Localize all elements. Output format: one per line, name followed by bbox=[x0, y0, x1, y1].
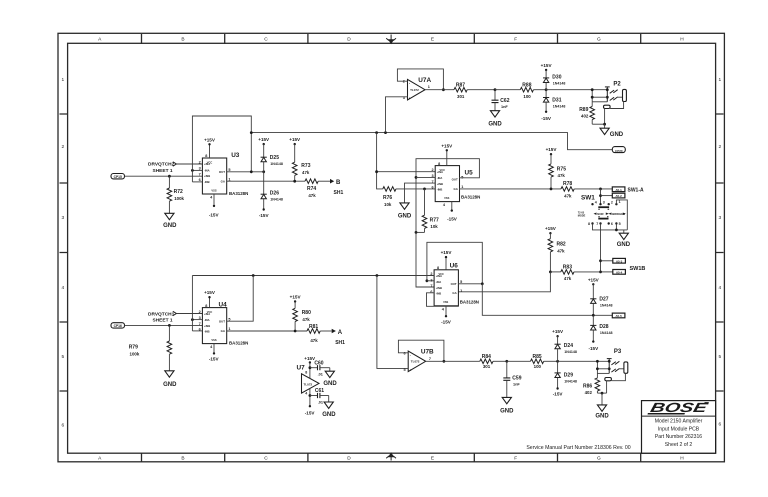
svg-text:-: - bbox=[409, 82, 410, 86]
junction R75 GA bbox=[550, 188, 553, 191]
SW1 wiper bar top bbox=[598, 206, 609, 208]
SW1 pin 8 bbox=[591, 222, 593, 224]
svg-text:4: 4 bbox=[595, 201, 597, 205]
wire U7B feedback bbox=[398, 340, 444, 361]
wire chevron to tip bbox=[619, 368, 624, 370]
resistor R76 10k bbox=[383, 187, 435, 207]
svg-text:+15V: +15V bbox=[588, 277, 600, 282]
svg-text:-15V: -15V bbox=[447, 216, 458, 221]
resistor R83 47k bbox=[550, 265, 600, 282]
svg-text:10k: 10k bbox=[430, 224, 438, 229]
svg-text:CP16: CP16 bbox=[114, 324, 122, 328]
junction R79 tap bbox=[168, 324, 171, 327]
junction U7B feedback output bbox=[443, 360, 446, 363]
junction R83 node bbox=[599, 271, 602, 274]
svg-text:+15V: +15V bbox=[441, 250, 453, 255]
svg-text:D: D bbox=[347, 36, 351, 42]
junction R82 R83 bbox=[549, 271, 552, 274]
svg-text:GND: GND bbox=[617, 242, 631, 248]
svg-text:BOSE: BOSE bbox=[649, 400, 710, 415]
svg-text:Model 2150 Amplifier: Model 2150 Amplifier bbox=[655, 419, 703, 425]
svg-text:2: 2 bbox=[718, 144, 721, 150]
wire to P2 bbox=[546, 89, 607, 91]
connector tag input B bbox=[111, 174, 125, 179]
svg-text:1: 1 bbox=[619, 200, 621, 204]
svg-text:6: 6 bbox=[718, 422, 721, 428]
junction tag2 bbox=[599, 194, 602, 197]
wire R82 node to U6 GA bbox=[458, 272, 550, 292]
wire chevron to tip bbox=[618, 96, 623, 98]
svg-text:CP20: CP20 bbox=[615, 149, 623, 153]
junction P3 ground bbox=[601, 392, 604, 395]
svg-text:8: 8 bbox=[588, 222, 590, 226]
svg-text:5: 5 bbox=[61, 354, 64, 360]
junction R73 GA bbox=[293, 180, 296, 183]
svg-text:10k: 10k bbox=[384, 202, 392, 207]
svg-text:+15V: +15V bbox=[290, 295, 302, 300]
svg-text:U5: U5 bbox=[465, 169, 474, 176]
column labels top bbox=[98, 36, 684, 42]
diode D28 1N4148 bbox=[588, 315, 612, 351]
svg-text:F: F bbox=[514, 36, 517, 42]
svg-text:C60: C60 bbox=[314, 361, 323, 367]
junction U3 pin3 feedback bbox=[191, 169, 194, 172]
svg-text:47k: 47k bbox=[302, 170, 310, 175]
wire SW1 pin8 to rail bbox=[593, 224, 628, 230]
svg-text:R83: R83 bbox=[563, 265, 572, 271]
svg-text:U4: U4 bbox=[219, 302, 228, 309]
svg-text:SW1: SW1 bbox=[581, 194, 595, 201]
svg-text:U7: U7 bbox=[297, 365, 306, 372]
svg-text:1N4148: 1N4148 bbox=[600, 304, 613, 308]
svg-text:1nF: 1nF bbox=[501, 105, 508, 109]
wire U3 feedback loop bbox=[192, 116, 251, 182]
-15V supply U6 pin4 bbox=[441, 306, 452, 325]
-15V supply U5 pin4 bbox=[447, 202, 458, 222]
wire U3 pin3 stub bbox=[192, 169, 202, 171]
net label DRVQTCH1 SHEET 1 bbox=[148, 311, 176, 323]
capacitor C61 .01 bbox=[310, 388, 329, 404]
svg-text:100: 100 bbox=[523, 94, 531, 99]
wire DRVQTCH2 to U3 pin2 bbox=[176, 163, 202, 165]
wire U4 GA line bbox=[227, 330, 307, 332]
svg-text:GND: GND bbox=[322, 412, 336, 418]
switch SW1 bbox=[578, 194, 626, 226]
jack sleeve contact bbox=[605, 378, 612, 381]
junction D30 clamp bbox=[545, 88, 548, 91]
-15V supply U7 pin4 bbox=[305, 389, 316, 416]
diode D24 1N4148 bbox=[552, 329, 577, 361]
svg-text:1: 1 bbox=[718, 77, 721, 83]
wire U5 pin2 bbox=[377, 171, 436, 173]
svg-text:R76: R76 bbox=[383, 195, 392, 201]
connector tag input A bbox=[111, 323, 125, 328]
wire tag2 branch bbox=[600, 189, 602, 204]
center marker top bbox=[386, 35, 396, 44]
svg-text:U7B: U7B bbox=[421, 348, 434, 355]
svg-text:C: C bbox=[264, 456, 268, 462]
svg-text:C61: C61 bbox=[315, 388, 324, 394]
-15V supply U3 pin4 bbox=[209, 194, 220, 217]
svg-text:-15V: -15V bbox=[259, 213, 270, 218]
wire sleeve to tip bottom bbox=[610, 102, 624, 109]
op-amp U7 power symbol bbox=[297, 365, 320, 393]
svg-text:100: 100 bbox=[534, 364, 542, 369]
svg-text:R78: R78 bbox=[563, 181, 572, 187]
svg-text:7: 7 bbox=[596, 222, 598, 226]
svg-text:1: 1 bbox=[61, 77, 64, 83]
row tick marks left bbox=[60, 114, 68, 391]
svg-text:3: 3 bbox=[603, 201, 605, 205]
SW1 pin 3 bbox=[599, 203, 601, 205]
svg-text:3: 3 bbox=[61, 215, 64, 221]
svg-text:5: 5 bbox=[718, 354, 721, 360]
junction D24 clamp bbox=[556, 360, 559, 363]
svg-text:D29: D29 bbox=[564, 373, 573, 379]
jack switch chevron 1 bbox=[611, 361, 619, 365]
node A SH1 arrow bbox=[332, 329, 345, 346]
jack tip box bbox=[624, 362, 628, 373]
svg-text:SW1B: SW1B bbox=[630, 266, 646, 272]
jack pin column bbox=[606, 87, 608, 102]
svg-text:Part Number 262316: Part Number 262316 bbox=[655, 434, 702, 440]
svg-text:C59: C59 bbox=[512, 376, 521, 382]
junction U4 pin3 feedback bbox=[191, 318, 194, 321]
SW1 pin 6 bbox=[608, 222, 610, 224]
wire U6 pin6 wrap bbox=[427, 293, 459, 307]
svg-text:GND: GND bbox=[488, 122, 502, 128]
wire SW1 pin5 to rail bbox=[615, 224, 617, 230]
op-amp U7B TL072 bbox=[403, 348, 434, 372]
SW1 pin 1 bbox=[615, 203, 617, 205]
svg-text:F: F bbox=[514, 456, 517, 462]
diode D29 1N4148 bbox=[553, 361, 577, 396]
svg-text:8: 8 bbox=[305, 371, 307, 375]
svg-text:-15V: -15V bbox=[588, 346, 599, 351]
connector P2 bbox=[591, 81, 627, 124]
wire to P3 bbox=[558, 360, 610, 362]
resistor R82 47k bbox=[545, 226, 566, 272]
junction bus U5 branch bbox=[375, 131, 378, 134]
diode D26 1N4148 bbox=[259, 172, 283, 218]
diode D25 1N4148 bbox=[258, 137, 283, 172]
svg-text:B: B bbox=[181, 36, 184, 42]
svg-text:+15V: +15V bbox=[441, 143, 453, 148]
border frame outer bbox=[58, 33, 724, 462]
op-amp U3 BA3128N bbox=[199, 152, 249, 199]
jack sleeve contact bbox=[604, 105, 611, 108]
junction U5 pin2 branch bbox=[375, 170, 378, 173]
junction C59 tap bbox=[505, 360, 508, 363]
svg-text:D25: D25 bbox=[270, 155, 279, 161]
svg-text:BA3128N: BA3128N bbox=[461, 195, 480, 200]
svg-text:Sheet 2 of 2: Sheet 2 of 2 bbox=[665, 442, 693, 448]
ground C59 bbox=[500, 397, 514, 414]
svg-text:R88: R88 bbox=[522, 83, 531, 89]
svg-text:R89: R89 bbox=[579, 107, 588, 113]
svg-text:GND: GND bbox=[163, 223, 177, 229]
wire sleeve to ground rail bbox=[604, 109, 606, 125]
junction R77 top bbox=[423, 188, 426, 191]
svg-text:3: 3 bbox=[718, 215, 721, 221]
svg-text:1N4148: 1N4148 bbox=[270, 162, 283, 166]
svg-text:D24: D24 bbox=[564, 343, 573, 349]
svg-text:DRVQTCH2: DRVQTCH2 bbox=[148, 162, 175, 168]
wire U7B +input from bus bbox=[377, 276, 408, 369]
border frame inner bbox=[68, 43, 716, 453]
svg-text:CP15: CP15 bbox=[114, 175, 122, 179]
column tick marks bottom bbox=[142, 453, 641, 462]
+15V supply U6 pin8 bbox=[441, 250, 453, 270]
capacitor C62 1nF bbox=[492, 90, 510, 111]
svg-text:B: B bbox=[181, 456, 184, 462]
junction bus U4 out bbox=[252, 274, 255, 277]
resistor R77 10k bbox=[416, 189, 439, 233]
column labels bottom bbox=[98, 456, 684, 462]
svg-text:E: E bbox=[431, 456, 434, 462]
jack switch chevron 2 bbox=[611, 369, 619, 373]
svg-text:R74: R74 bbox=[307, 186, 316, 192]
junction U7A feedback output bbox=[442, 88, 445, 91]
resistor R86 402 bbox=[583, 378, 607, 395]
resistor R78 47k bbox=[561, 181, 612, 199]
resistor R87 301 bbox=[454, 83, 495, 100]
svg-text:402: 402 bbox=[585, 390, 593, 395]
svg-text:7: 7 bbox=[429, 357, 431, 361]
wire U3 OUT bbox=[227, 171, 264, 173]
svg-text:R77: R77 bbox=[430, 217, 439, 223]
wire sleeve to ground rail bbox=[606, 381, 608, 393]
svg-text:GND: GND bbox=[595, 413, 609, 419]
jack tip box bbox=[623, 89, 627, 101]
wire U7B output bbox=[426, 360, 480, 362]
wire U6 OUT to clamp bbox=[482, 284, 612, 316]
svg-text:R80: R80 bbox=[302, 310, 311, 316]
resistor R72 100k bbox=[167, 176, 184, 213]
op-amp U4 BA3128N bbox=[199, 302, 249, 350]
svg-text:D28: D28 bbox=[599, 324, 608, 330]
svg-text:1N4148: 1N4148 bbox=[270, 198, 283, 202]
wire U7A +input from bus bbox=[386, 97, 408, 133]
junction R72 tap bbox=[168, 175, 171, 178]
svg-text:+15V: +15V bbox=[545, 226, 557, 231]
svg-text:100k: 100k bbox=[174, 196, 184, 201]
svg-text:A5-4: A5-4 bbox=[616, 271, 623, 275]
wire U4 pin6 stub bbox=[192, 330, 202, 332]
wire P2 inputs bbox=[592, 96, 607, 98]
junction C60 tap bbox=[309, 366, 312, 369]
svg-text:6: 6 bbox=[61, 423, 64, 429]
svg-text:+15V: +15V bbox=[204, 137, 216, 142]
svg-text:TL072: TL072 bbox=[304, 383, 313, 387]
wire node to U6 pin7 bbox=[416, 232, 434, 287]
svg-text:BA3128N: BA3128N bbox=[460, 300, 479, 305]
junction U3 OUT clamp bbox=[262, 170, 265, 173]
svg-text:402: 402 bbox=[581, 113, 589, 118]
svg-text:-15V: -15V bbox=[209, 212, 220, 217]
svg-text:47k: 47k bbox=[310, 338, 318, 343]
svg-text:47k: 47k bbox=[564, 276, 572, 281]
wire U5 GA line bbox=[459, 188, 561, 190]
SW1 pin 4 bbox=[591, 203, 593, 205]
svg-text:2: 2 bbox=[61, 144, 64, 150]
svg-text:A5-5: A5-5 bbox=[615, 314, 622, 318]
row labels right bbox=[718, 77, 721, 428]
wire U7A feedback bbox=[397, 69, 443, 90]
+15V supply U5 pin8 bbox=[441, 143, 453, 165]
wire P3 inputs bbox=[597, 368, 609, 370]
svg-text:100k: 100k bbox=[130, 351, 140, 356]
svg-text:SHEET 1: SHEET 1 bbox=[153, 318, 173, 324]
wire U4 feedback loop bbox=[191, 276, 193, 331]
svg-text:E: E bbox=[431, 36, 434, 42]
svg-text:D27: D27 bbox=[599, 297, 608, 303]
junction rail pin5 bbox=[615, 229, 618, 232]
diode D27 1N4148 bbox=[588, 277, 613, 315]
svg-text:47k: 47k bbox=[558, 173, 566, 178]
wire SW1 pin1 loop bbox=[616, 200, 627, 230]
wire U5 feedback loop bbox=[416, 159, 479, 233]
svg-text:R79: R79 bbox=[129, 344, 138, 350]
svg-text:R86: R86 bbox=[583, 384, 592, 390]
svg-text:H: H bbox=[680, 456, 684, 462]
SW1 pin 7 bbox=[599, 222, 601, 224]
svg-text:R72: R72 bbox=[174, 189, 183, 195]
junction SW1B tag1 bbox=[599, 259, 602, 262]
svg-text:R82: R82 bbox=[557, 241, 566, 247]
svg-text:R73: R73 bbox=[301, 163, 310, 169]
svg-text:DRVQTCH1: DRVQTCH1 bbox=[148, 311, 175, 317]
+15V supply U3 pin8 bbox=[204, 137, 216, 158]
svg-text:GND: GND bbox=[163, 382, 177, 388]
svg-text:-: - bbox=[410, 353, 411, 357]
svg-text:H: H bbox=[680, 36, 684, 42]
svg-text:+15V: +15V bbox=[289, 137, 301, 142]
svg-text:1N4148: 1N4148 bbox=[600, 331, 613, 335]
svg-text:-15V: -15V bbox=[553, 391, 564, 396]
wire SW1 pin7 down bbox=[600, 224, 602, 272]
capacitor C59 1nF bbox=[503, 361, 521, 397]
svg-text:2: 2 bbox=[611, 201, 613, 205]
svg-text:4: 4 bbox=[305, 392, 307, 396]
junction U6 OUT bbox=[481, 282, 484, 285]
svg-text:+15V: +15V bbox=[541, 63, 553, 68]
wire input B to U3 pin7 bbox=[125, 175, 203, 177]
svg-text:R87: R87 bbox=[456, 83, 465, 89]
junction C61 tap bbox=[309, 394, 312, 397]
svg-text:C: C bbox=[264, 36, 268, 42]
svg-text:+15V: +15V bbox=[204, 290, 216, 295]
wire sleeve to tip bottom bbox=[611, 373, 625, 380]
svg-text:NOR: NOR bbox=[597, 212, 603, 216]
ground C61 bbox=[322, 396, 336, 419]
wire U6 pin3 stub bbox=[427, 280, 434, 282]
SW1 wiper bar bottom bbox=[598, 218, 608, 220]
svg-text:-15V: -15V bbox=[305, 411, 316, 416]
ground P2 bbox=[600, 124, 624, 138]
junction bus U3 bbox=[250, 131, 253, 134]
jack switch chevron 1 bbox=[610, 90, 618, 94]
BOSE logo bbox=[647, 400, 710, 415]
resistor R89 402 bbox=[579, 106, 604, 124]
wire bus branch to U5 bbox=[377, 133, 383, 189]
svg-text:MODE: MODE bbox=[578, 214, 586, 217]
resistor R75 47k bbox=[546, 147, 567, 189]
svg-text:1N4148: 1N4148 bbox=[564, 350, 577, 354]
column tick marks top bbox=[142, 34, 641, 44]
svg-text:U6: U6 bbox=[450, 262, 459, 269]
svg-text:C62: C62 bbox=[500, 98, 509, 104]
+15V supply U7 pin8 bbox=[304, 356, 316, 378]
svg-text:SH1: SH1 bbox=[335, 340, 345, 346]
svg-text:301: 301 bbox=[483, 364, 491, 369]
center marker bottom bbox=[386, 453, 396, 460]
svg-text:1nF: 1nF bbox=[513, 383, 520, 387]
connector tag CP20 bbox=[612, 147, 625, 153]
junction SW1-A tag1 bbox=[599, 188, 602, 191]
capacitor C60 .01 bbox=[310, 361, 330, 377]
svg-text:BRIDGED: BRIDGED bbox=[612, 212, 625, 216]
connector tag SW1B lower bbox=[601, 266, 646, 275]
svg-text:GND: GND bbox=[323, 381, 337, 387]
junction U3 OUT loop bbox=[250, 170, 253, 173]
svg-text:GND: GND bbox=[398, 214, 412, 220]
wire U7A output bbox=[425, 89, 454, 91]
op-amp U5 BA3128N bbox=[431, 162, 480, 207]
svg-text:301: 301 bbox=[457, 94, 465, 99]
svg-text:U3: U3 bbox=[231, 152, 240, 159]
svg-text:D: D bbox=[347, 456, 351, 462]
wire net A bus bbox=[192, 275, 434, 277]
svg-text:47k: 47k bbox=[564, 193, 572, 198]
svg-text:BA3128N: BA3128N bbox=[229, 191, 248, 196]
svg-text:.01: .01 bbox=[318, 401, 323, 405]
jack pin column bbox=[608, 359, 610, 374]
ground R72 bbox=[163, 213, 177, 229]
svg-text:47k: 47k bbox=[308, 193, 316, 198]
svg-text:47k: 47k bbox=[557, 248, 565, 253]
row tick marks right bbox=[716, 114, 724, 391]
svg-text:R84: R84 bbox=[482, 354, 491, 360]
junction P2 ground bbox=[603, 123, 606, 126]
svg-text:Service Manual Part Number 218: Service Manual Part Number 218306 Rev. 0… bbox=[526, 445, 630, 451]
svg-text:SH1: SH1 bbox=[334, 190, 344, 196]
svg-text:GND: GND bbox=[500, 408, 514, 414]
net label DRVQTCH2 SHEET 1 bbox=[148, 162, 176, 174]
svg-text:U7A: U7A bbox=[418, 77, 431, 84]
svg-text:4: 4 bbox=[718, 285, 721, 291]
wire U4 pin3 stub bbox=[192, 319, 202, 321]
svg-text:A5-3: A5-3 bbox=[616, 259, 623, 263]
svg-text:+15V: +15V bbox=[258, 137, 270, 142]
svg-text:-15V: -15V bbox=[541, 116, 552, 121]
diode D31 1N4148 bbox=[541, 90, 565, 121]
svg-text:+15V: +15V bbox=[552, 329, 564, 334]
wire U3 GA line bbox=[227, 180, 305, 182]
ground C62 bbox=[488, 111, 502, 128]
junction bus U7A branch bbox=[384, 131, 387, 134]
svg-text:G: G bbox=[597, 456, 601, 462]
-15V supply U4 pin4 bbox=[209, 344, 220, 362]
resistor R73 47k bbox=[289, 137, 310, 181]
node B SH1 arrow bbox=[330, 179, 343, 196]
junction R77 feedback node bbox=[415, 231, 418, 234]
svg-text:R81: R81 bbox=[309, 324, 318, 330]
svg-text:1N4148: 1N4148 bbox=[553, 82, 566, 86]
resistor R81 47k bbox=[307, 324, 332, 343]
svg-text:6: 6 bbox=[403, 351, 405, 355]
ground C60 bbox=[323, 368, 337, 388]
